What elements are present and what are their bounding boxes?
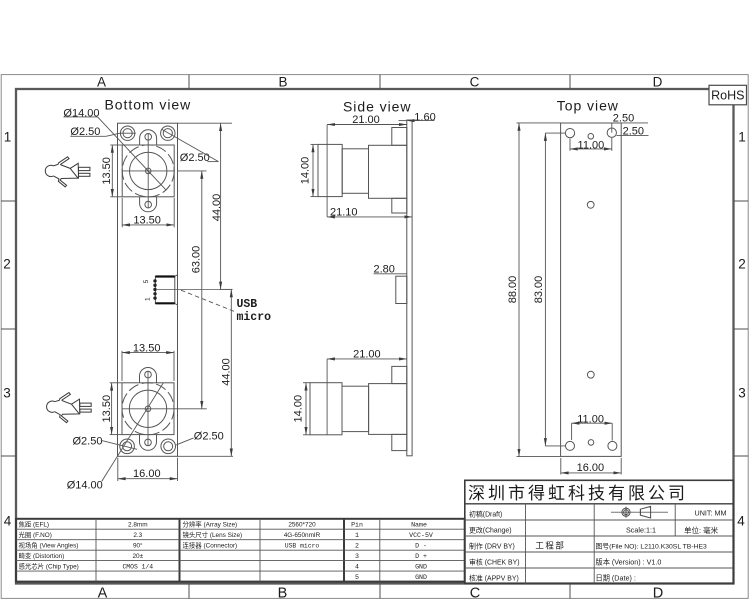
svg-text:4: 4 (737, 514, 745, 529)
svg-text:D: D (653, 75, 663, 90)
dimension Ø2.50 bottom-left (73, 435, 138, 449)
tables (16, 519, 465, 582)
mounting hole bottom-right (161, 439, 176, 454)
svg-text:Top view: Top view (557, 98, 619, 114)
hole top-left (565, 128, 574, 137)
spec table column lines (96, 519, 380, 582)
PCB outline bottom view (118, 123, 178, 456)
EFL row (19, 520, 148, 529)
svg-text:4: 4 (355, 564, 359, 571)
dimension 14.00 bottom camera (293, 383, 311, 435)
dimension 13.50 left of top lens (101, 145, 122, 197)
svg-text:视场角 (View Angles): 视场角 (View Angles) (19, 541, 79, 550)
svg-text:C: C (470, 75, 480, 90)
svg-text:14.00: 14.00 (293, 395, 305, 423)
small hole top-middle (588, 134, 594, 140)
dimension 2.50 upper label (612, 113, 648, 133)
svg-text:11.00: 11.00 (578, 139, 605, 151)
svg-text:1: 1 (355, 532, 359, 539)
bottom lens dimension 13.50 above (122, 343, 174, 381)
bottom camera lens barrel (342, 386, 369, 431)
dimension 14.00 top camera (300, 144, 319, 196)
svg-text:2: 2 (3, 257, 11, 272)
bottom lens barrel circles (122, 383, 174, 435)
Distortion row (19, 551, 144, 560)
side view (293, 99, 436, 456)
svg-text:Ø2.50: Ø2.50 (73, 435, 103, 447)
svg-text:连接器 (Connector): 连接器 (Connector) (183, 541, 238, 550)
svg-text:制作 (DRV BY): 制作 (DRV BY) (469, 542, 515, 551)
svg-text:1: 1 (144, 297, 151, 301)
dimension 83.00 (533, 133, 565, 446)
pin 2 D- (355, 543, 427, 550)
svg-text:GND: GND (415, 574, 427, 581)
title block outer border (465, 480, 734, 583)
svg-text:21.00: 21.00 (353, 348, 381, 360)
RoHS box (709, 85, 747, 105)
svg-text:16.00: 16.00 (133, 468, 161, 480)
svg-text:Ø14.00: Ø14.00 (63, 107, 99, 119)
spec table section dividers (180, 519, 345, 582)
svg-text:Scale:1:1: Scale:1:1 (626, 526, 656, 535)
Array Size row (183, 520, 317, 529)
dimension 2.80 (374, 264, 408, 276)
USB micro leader dashed (181, 290, 235, 311)
pin 3 D+ (355, 553, 427, 560)
svg-text:日期 (Date) :: 日期 (Date) : (596, 573, 636, 582)
svg-text:D: D (653, 586, 663, 600)
svg-text:畸变 (Distortion): 畸变 (Distortion) (19, 551, 65, 560)
svg-text:4G-650nmIR: 4G-650nmIR (284, 532, 321, 539)
USB connector side profile (396, 276, 407, 303)
dimension 88.00 (507, 123, 561, 457)
svg-text:Ø14.00: Ø14.00 (67, 479, 103, 491)
svg-text:工程部: 工程部 (535, 540, 565, 550)
pin 5 GND (355, 574, 427, 581)
bottom lens holder top ear (140, 368, 157, 383)
svg-text:焦距 (EFL): 焦距 (EFL) (19, 520, 50, 529)
svg-text:14.00: 14.00 (300, 157, 312, 185)
dimension 13.50 left of bottom lens (101, 383, 122, 435)
svg-text:3: 3 (3, 386, 11, 401)
title block column lines (526, 504, 676, 584)
pin 1 VCC-5V (355, 532, 433, 539)
svg-text:USB: USB (237, 298, 258, 311)
svg-text:更改(Change): 更改(Change) (469, 526, 512, 535)
inner border (16, 89, 734, 584)
svg-text:20±: 20± (132, 553, 143, 560)
Lens Size row (183, 530, 321, 539)
svg-text:11.00: 11.00 (577, 414, 604, 426)
USB connector pins (153, 279, 156, 300)
svg-text:RoHS: RoHS (711, 89, 744, 103)
svg-text:63.00: 63.00 (191, 246, 203, 274)
svg-text:3: 3 (738, 386, 746, 401)
top lens holder square (122, 145, 174, 197)
svg-text:13.50: 13.50 (133, 214, 161, 226)
title block (465, 480, 734, 583)
top camera lens front ring (318, 144, 342, 196)
svg-text:micro: micro (237, 311, 272, 324)
svg-text:2.8mm: 2.8mm (128, 522, 148, 529)
svg-text:C: C (470, 586, 480, 600)
svg-text:Bottom view: Bottom view (105, 97, 192, 113)
dimension 44.00 upper (178, 123, 233, 289)
svg-text:1: 1 (4, 130, 12, 145)
svg-text:1: 1 (738, 130, 746, 145)
svg-text:VCC-5V: VCC-5V (409, 532, 433, 539)
mounting hole top-left (120, 126, 134, 140)
mid hole upper (587, 201, 594, 208)
bottom lens crosshair (122, 372, 207, 447)
svg-text:5: 5 (143, 279, 150, 283)
svg-text:UNIT: MM: UNIT: MM (695, 508, 727, 517)
hole top-right (607, 128, 616, 137)
svg-text:分辨率 (Array Size): 分辨率 (Array Size) (183, 520, 238, 529)
View Angle row (19, 541, 144, 550)
bottom camera holder top flange (392, 366, 407, 383)
dimension Ø2.50 top-left (70, 126, 135, 138)
svg-text:83.00: 83.00 (533, 276, 545, 304)
dimension 11.00 top (570, 138, 612, 151)
spec table outer border (16, 519, 465, 582)
svg-text:A: A (97, 75, 106, 90)
hole bottom-right (608, 441, 617, 450)
svg-text:深圳市得虹科技有限公司: 深圳市得虹科技有限公司 (468, 484, 688, 503)
svg-text:初稿(Draft): 初稿(Draft) (469, 510, 502, 519)
bottom camera holder block (369, 384, 407, 435)
svg-text:4: 4 (4, 514, 12, 529)
USB connector (155, 275, 177, 305)
svg-text:D +: D + (415, 553, 427, 560)
PCB side profile (407, 120, 412, 456)
person figure top (45, 157, 90, 187)
svg-text:13.50: 13.50 (101, 395, 113, 423)
top camera holder bottom flange (392, 198, 407, 213)
dimension Ø2.50 top-right (162, 129, 219, 163)
bottom lens holder bottom ear (140, 435, 157, 451)
svg-text:21.00: 21.00 (352, 114, 380, 126)
company name header box (465, 503, 734, 505)
top lens holder bottom ear (140, 197, 157, 212)
svg-text:Ø2.50: Ø2.50 (194, 430, 224, 442)
svg-text:B: B (278, 75, 287, 90)
mounting hole bottom-left (120, 439, 135, 454)
Connector row (183, 541, 320, 550)
top camera holder block (369, 145, 407, 198)
dimension 63.00 (178, 171, 207, 409)
svg-text:B: B (278, 586, 288, 600)
person figure bottom (47, 393, 92, 423)
pin table header (351, 522, 427, 529)
svg-text:88.00: 88.00 (507, 276, 519, 304)
bottom lens holder square (122, 383, 174, 435)
dimension Ø2.50 bottom-right (176, 430, 224, 445)
svg-text:2: 2 (355, 543, 359, 550)
svg-text:A: A (98, 586, 108, 600)
dimension Ø14.00 bottom (67, 383, 164, 491)
dimension 21.00 bottom camera (327, 348, 407, 434)
zone letters top (97, 75, 663, 90)
USB micro label (237, 298, 272, 324)
zone letters bottom (98, 586, 664, 600)
dimension 1.60 PCB thickness (399, 111, 436, 123)
PCB outline top view (561, 123, 622, 456)
svg-text:44.00: 44.00 (220, 358, 232, 386)
dimension 13.50 below top lens (122, 198, 174, 227)
hole bottom-left (566, 441, 575, 450)
svg-text:90°: 90° (133, 542, 143, 550)
mounting hole top-right (161, 126, 175, 140)
projection symbol (611, 506, 668, 518)
Chip Type row (19, 562, 154, 571)
dimension 16.00 top view (561, 458, 621, 475)
svg-text:USB micro: USB micro (285, 543, 320, 550)
zone numbers right (737, 130, 746, 529)
title block row lines (465, 520, 734, 568)
dimension Ø14.00 top (63, 107, 166, 190)
svg-text:CMOS 1/4: CMOS 1/4 (122, 564, 153, 571)
top lens crosshair (122, 133, 174, 208)
svg-text:单位: 毫米: 单位: 毫米 (684, 525, 719, 535)
svg-text:镜头尺寸 (Lens Size): 镜头尺寸 (Lens Size) (183, 530, 243, 539)
bottom camera holder bottom flange (392, 434, 407, 450)
zone numbers left (3, 130, 12, 529)
svg-text:5: 5 (355, 574, 359, 581)
spec table row lines (16, 529, 465, 571)
USB connector center line (157, 288, 233, 290)
mid hole lower (587, 371, 594, 378)
svg-text:21.10: 21.10 (330, 206, 358, 218)
svg-text:44.00: 44.00 (211, 194, 223, 222)
svg-text:2560*720: 2560*720 (288, 522, 316, 529)
svg-text:感光芯片 (Chip Type): 感光芯片 (Chip Type) (19, 562, 79, 571)
svg-text:2: 2 (738, 257, 746, 272)
svg-text:Pin: Pin (351, 522, 363, 529)
top view (507, 98, 648, 475)
bottom camera lens front ring (310, 383, 342, 435)
svg-text:版本 (Version) : V1.0: 版本 (Version) : V1.0 (596, 557, 662, 566)
dimension 44.00 lower (178, 289, 234, 456)
F.NO row (19, 530, 143, 539)
svg-text:13.50: 13.50 (101, 157, 113, 185)
svg-text:1.60: 1.60 (414, 111, 435, 123)
top lens barrel circles (122, 145, 174, 197)
pin 4 GND (355, 564, 427, 571)
top camera holder top flange (392, 128, 407, 146)
svg-text:光圈 (F.NO): 光圈 (F.NO) (19, 530, 52, 539)
dimension 21.00 top camera (327, 114, 407, 217)
top lens holder top ear (140, 130, 157, 145)
svg-text:审核 (CHEK BY): 审核 (CHEK BY) (469, 558, 520, 567)
svg-text:3: 3 (355, 553, 359, 560)
svg-text:16.00: 16.00 (577, 462, 605, 474)
dimension 11.00 bottom (572, 414, 613, 441)
dimension 16.00 (118, 458, 178, 481)
svg-text:核准 (APPV BY): 核准 (APPV BY) (469, 574, 519, 583)
svg-text:2.3: 2.3 (133, 532, 142, 539)
dimension 21.10 (327, 206, 412, 218)
svg-text:GND: GND (415, 564, 427, 571)
top camera lens barrel (342, 149, 368, 194)
dimension 2.50 lower label (617, 125, 649, 137)
svg-text:13.50: 13.50 (133, 343, 161, 355)
svg-text:图号(File NO): L2110.K30SL TB-HE: 图号(File NO): L2110.K30SL TB-HE3 (596, 542, 708, 550)
svg-text:Side view: Side view (343, 99, 411, 115)
bottom view (45, 97, 271, 492)
svg-text:D -: D - (415, 543, 427, 550)
svg-text:Name: Name (411, 522, 427, 529)
small hole bottom-middle (588, 440, 594, 446)
